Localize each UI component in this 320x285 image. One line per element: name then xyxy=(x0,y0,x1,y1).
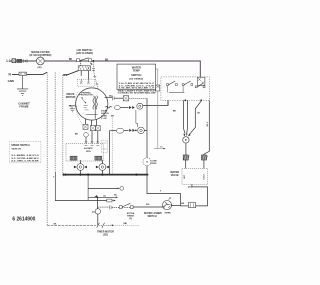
svg-text:6 2614900: 6 2614900 xyxy=(12,217,35,223)
svg-text:SPIN: SPIN xyxy=(86,151,91,153)
svg-text:(5): (5) xyxy=(129,218,132,220)
svg-text:VIEW ON: VIEW ON xyxy=(11,149,21,151)
svg-text:COLD: COLD xyxy=(204,173,206,179)
svg-text:HOT: HOT xyxy=(184,174,186,179)
svg-text:SWITCH: SWITCH xyxy=(147,216,156,218)
svg-text:(2D): (2D) xyxy=(103,233,108,236)
svg-text:S-1–BK/BU–2-W-GY-O: S-1–BK/BU–2-W-GY-O xyxy=(11,155,39,157)
svg-text:BK: BK xyxy=(75,134,79,136)
svg-text:BU: BU xyxy=(114,195,117,197)
svg-text:SWITCH: SWITCH xyxy=(131,73,141,77)
svg-text:FRAME: FRAME xyxy=(19,104,28,108)
svg-text:BK: BK xyxy=(105,59,109,61)
svg-text:BK: BK xyxy=(173,110,177,112)
svg-text:BU: BU xyxy=(109,96,113,98)
svg-text:3-W–BK-W 6-BU-BK 1-V: 3-W–BK-W 6-BU-BK 1-V xyxy=(119,87,156,89)
svg-text:(2E): (2E) xyxy=(38,67,42,69)
svg-text:(2B): (2B) xyxy=(123,223,127,225)
svg-text:WATER LEVEL: WATER LEVEL xyxy=(144,212,161,215)
svg-text:BK: BK xyxy=(69,59,73,61)
svg-text:N: N xyxy=(9,73,12,77)
svg-text:(5): (5) xyxy=(92,211,95,213)
svg-text:BK: BK xyxy=(111,116,115,118)
svg-text:V: V xyxy=(53,177,55,179)
svg-text:TIMER: TIMER xyxy=(164,212,171,214)
svg-text:1B: 1B xyxy=(197,112,200,114)
svg-text:MOTOR: MOTOR xyxy=(66,95,76,99)
svg-text:V: V xyxy=(169,197,171,199)
svg-text:AGITATE: AGITATE xyxy=(84,147,93,150)
svg-text:SPEED SWITCH: SPEED SWITCH xyxy=(11,144,29,147)
svg-text:GND: GND xyxy=(8,79,14,83)
svg-text:CONTACTS SHOWN BELOW: CONTACTS SHOWN BELOW xyxy=(118,92,156,95)
svg-text:PROTECTOR: PROTECTOR xyxy=(79,95,93,97)
svg-text:L1: L1 xyxy=(7,59,11,63)
svg-text:BU: BU xyxy=(146,204,150,206)
svg-text:(AS VIEWED): (AS VIEWED) xyxy=(129,77,143,80)
svg-text:VALVE: VALVE xyxy=(171,174,179,177)
svg-text:LEVEL: LEVEL xyxy=(150,163,157,165)
svg-text:S-5–V/BU–6-OR-W-BK: S-5–V/BU–6-OR-W-BK xyxy=(11,161,39,163)
svg-text:V OR: V OR xyxy=(101,118,107,120)
svg-text:(IF SO EQUIPPED): (IF SO EQUIPPED) xyxy=(29,54,51,57)
svg-text:(2): (2) xyxy=(103,196,106,198)
svg-text:S-3–GY/OR–4-BK-W-V: S-3–GY/OR–4-BK-W-V xyxy=(11,157,39,160)
svg-text:V: V xyxy=(160,190,162,192)
svg-text:BK V: BK V xyxy=(207,121,209,126)
svg-text:(LID CLOSED): (LID CLOSED) xyxy=(76,52,93,55)
svg-text:(2C): (2C) xyxy=(188,186,192,188)
svg-text:1C: 1C xyxy=(160,146,163,148)
svg-text:BK: BK xyxy=(181,203,185,205)
svg-text:TEMP: TEMP xyxy=(133,69,140,73)
